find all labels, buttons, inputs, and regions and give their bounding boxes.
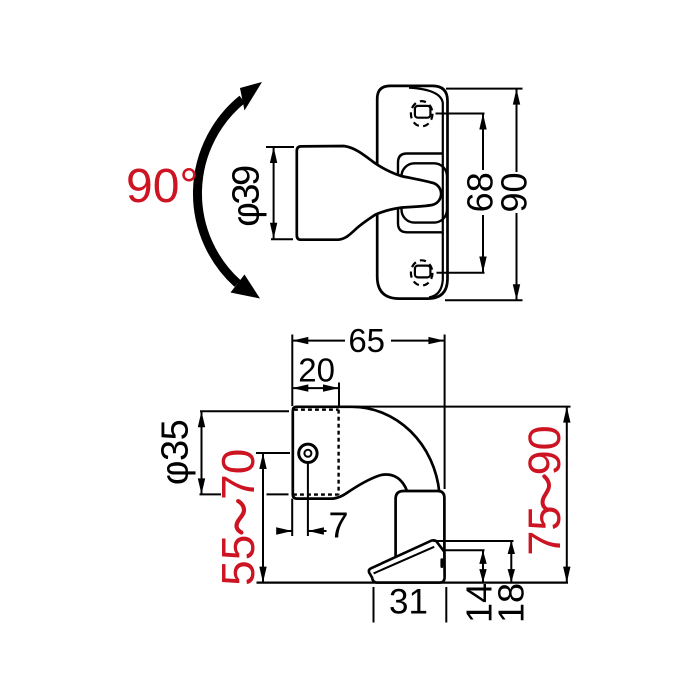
svg-text:90°: 90° [126, 160, 199, 213]
svg-text:φ39: φ39 [226, 166, 268, 227]
svg-text:65: 65 [348, 322, 385, 359]
svg-text:55: 55 [212, 535, 264, 586]
svg-text:90: 90 [519, 425, 570, 475]
svg-text:φ35: φ35 [155, 420, 197, 485]
svg-text:75: 75 [519, 506, 570, 556]
svg-text:7: 7 [329, 505, 349, 546]
svg-text:20: 20 [298, 351, 335, 388]
svg-text:90: 90 [494, 172, 535, 212]
svg-text:18: 18 [491, 583, 532, 623]
svg-text:31: 31 [389, 583, 428, 622]
svg-text:70: 70 [212, 449, 264, 500]
